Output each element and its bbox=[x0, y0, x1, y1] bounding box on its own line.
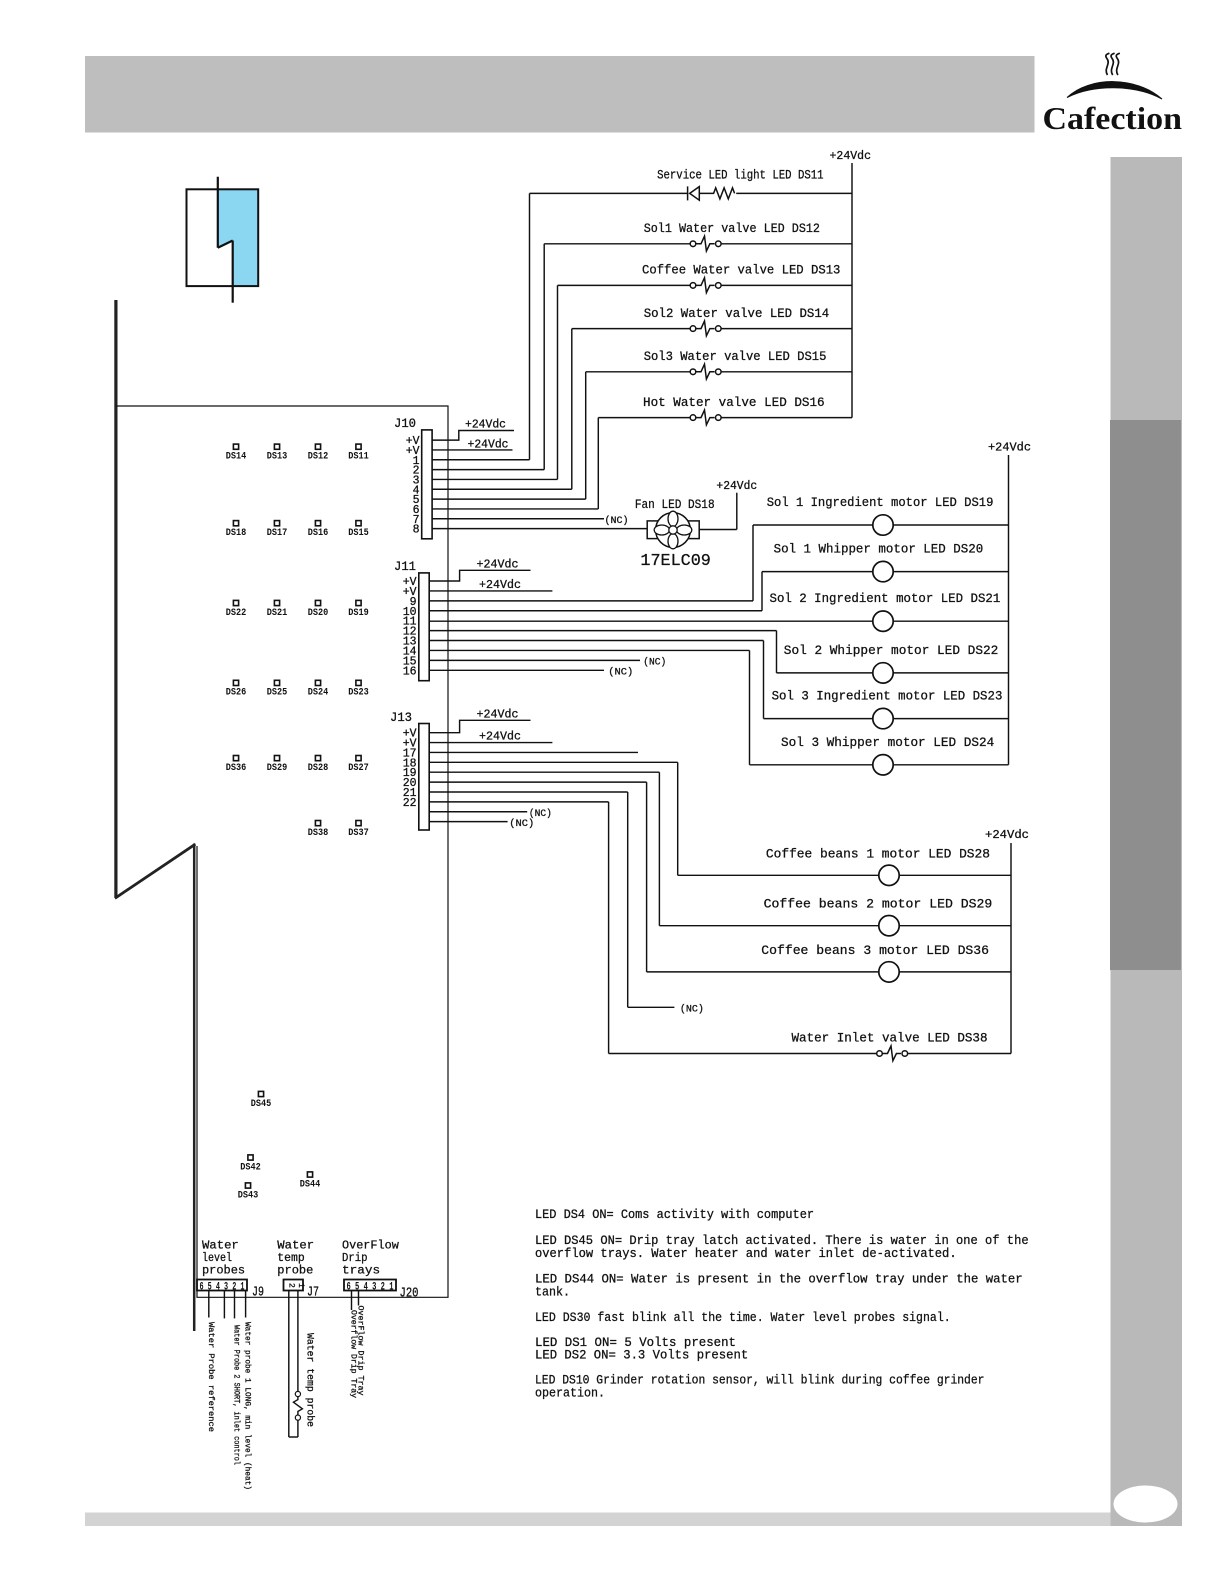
svg-text:DS22: DS22 bbox=[226, 608, 247, 619]
svg-text:operation.: operation. bbox=[535, 1385, 605, 1400]
svg-text:(NC): (NC) bbox=[680, 1003, 704, 1015]
svg-text:DS11: DS11 bbox=[348, 452, 369, 463]
svg-text:tank.: tank. bbox=[535, 1285, 570, 1300]
svg-text:LED DS44 ON= Water is present: LED DS44 ON= Water is present in the ove… bbox=[535, 1272, 1023, 1287]
svg-text:Coffee Water valve LED DS13: Coffee Water valve LED DS13 bbox=[642, 263, 840, 278]
svg-text:(NC): (NC) bbox=[605, 515, 629, 527]
svg-text:Sol 2 Whipper motor LED DS22: Sol 2 Whipper motor LED DS22 bbox=[784, 643, 999, 658]
svg-text:Hot Water valve LED DS16: Hot Water valve LED DS16 bbox=[643, 395, 825, 410]
svg-text:(NC): (NC) bbox=[608, 666, 633, 678]
svg-text:Sol 1 Ingredient motor LED DS1: Sol 1 Ingredient motor LED DS19 bbox=[767, 495, 994, 510]
svg-text:J11: J11 bbox=[394, 560, 416, 574]
svg-text:+24Vdc: +24Vdc bbox=[479, 579, 521, 592]
svg-text:Sol3 Water valve LED DS15: Sol3 Water valve LED DS15 bbox=[644, 349, 827, 364]
svg-text:+24Vdc: +24Vdc bbox=[477, 559, 519, 572]
svg-text:DS37: DS37 bbox=[348, 828, 369, 839]
svg-text:DS23: DS23 bbox=[348, 688, 369, 699]
svg-text:16: 16 bbox=[403, 665, 417, 678]
svg-text:DS25: DS25 bbox=[267, 688, 288, 699]
svg-text:OverFlow Drip Tray: OverFlow Drip Tray bbox=[356, 1306, 366, 1396]
svg-text:Water probe 1 LONG, min level: Water probe 1 LONG, min level (heat) bbox=[243, 1322, 253, 1490]
svg-text:Sol 2 Ingredient motor LED DS2: Sol 2 Ingredient motor LED DS21 bbox=[770, 591, 1001, 606]
svg-text:22: 22 bbox=[403, 797, 417, 810]
svg-text:Service LED light LED DS11: Service LED light LED DS11 bbox=[657, 167, 824, 182]
svg-text:Sol 3 Whipper motor LED DS24: Sol 3 Whipper motor LED DS24 bbox=[781, 735, 994, 750]
svg-text:DS15: DS15 bbox=[348, 528, 369, 539]
svg-text:+24Vdc: +24Vdc bbox=[468, 439, 509, 452]
svg-text:+24Vdc: +24Vdc bbox=[985, 829, 1029, 842]
svg-text:DS27: DS27 bbox=[348, 763, 369, 774]
svg-text:Water Probe 2 SHORT, inlet con: Water Probe 2 SHORT, inlet control bbox=[232, 1325, 242, 1465]
svg-text:Coffee beans 1 motor LED DS28: Coffee beans 1 motor LED DS28 bbox=[766, 846, 990, 861]
svg-text:J13: J13 bbox=[390, 711, 412, 725]
svg-text:LED DS2 ON= 3.3 Volts present: LED DS2 ON= 3.3 Volts present bbox=[535, 1348, 748, 1363]
svg-text:Water Inlet valve LED DS38: Water Inlet valve LED DS38 bbox=[792, 1031, 988, 1046]
svg-text:DS43: DS43 bbox=[238, 1190, 259, 1201]
svg-text:DS12: DS12 bbox=[308, 452, 329, 463]
svg-text:DS29: DS29 bbox=[267, 763, 288, 774]
svg-text:J10: J10 bbox=[394, 417, 416, 431]
svg-text:DS17: DS17 bbox=[267, 528, 288, 539]
svg-text:Water temp probe: Water temp probe bbox=[305, 1333, 316, 1427]
svg-text:Sol 3 Ingredient motor LED DS2: Sol 3 Ingredient motor LED DS23 bbox=[772, 689, 1003, 704]
svg-text:17ELC09: 17ELC09 bbox=[640, 552, 711, 571]
svg-text:+24Vdc: +24Vdc bbox=[988, 442, 1031, 455]
svg-text:trays: trays bbox=[342, 1264, 380, 1278]
svg-text:Sol 1 Whipper motor LED DS20: Sol 1 Whipper motor LED DS20 bbox=[774, 542, 984, 557]
svg-text:DS20: DS20 bbox=[308, 608, 329, 619]
svg-text:J9: J9 bbox=[252, 1286, 264, 1301]
svg-text:2: 2 bbox=[287, 1283, 296, 1288]
svg-text:DS28: DS28 bbox=[308, 763, 329, 774]
svg-text:+24Vdc: +24Vdc bbox=[716, 480, 757, 493]
svg-text:probe: probe bbox=[277, 1264, 313, 1278]
svg-text:(NC): (NC) bbox=[643, 656, 666, 668]
svg-text:8: 8 bbox=[413, 524, 420, 537]
svg-text:DS44: DS44 bbox=[300, 1179, 321, 1190]
svg-text:LED DS30 fast blink all the ti: LED DS30 fast blink all the time. Water … bbox=[535, 1310, 951, 1325]
svg-text:6 5 4 3 2 1: 6 5 4 3 2 1 bbox=[347, 1281, 394, 1293]
svg-text:(NC): (NC) bbox=[509, 818, 534, 830]
svg-text:DS21: DS21 bbox=[267, 608, 288, 619]
svg-text:6 5 4 3 2 1: 6 5 4 3 2 1 bbox=[200, 1281, 245, 1293]
svg-text:+24Vdc: +24Vdc bbox=[479, 731, 521, 744]
svg-text:+24Vdc: +24Vdc bbox=[477, 709, 519, 722]
svg-text:J7: J7 bbox=[307, 1286, 319, 1301]
svg-text:1: 1 bbox=[296, 1283, 305, 1288]
svg-text:LED DS4 ON= Coms activity with: LED DS4 ON= Coms activity with computer bbox=[535, 1207, 814, 1222]
svg-text:DS36: DS36 bbox=[226, 763, 247, 774]
svg-text:DS16: DS16 bbox=[308, 528, 329, 539]
svg-text:DS18: DS18 bbox=[226, 528, 247, 539]
svg-text:Fan LED DS18: Fan LED DS18 bbox=[635, 497, 715, 512]
svg-text:DS13: DS13 bbox=[267, 452, 288, 463]
svg-text:DS42: DS42 bbox=[240, 1162, 261, 1173]
svg-text:Coffee beans 3 motor LED DS36: Coffee beans 3 motor LED DS36 bbox=[761, 943, 989, 958]
svg-text:DS24: DS24 bbox=[308, 688, 329, 699]
svg-text:J20: J20 bbox=[400, 1287, 419, 1302]
svg-text:Sol1 Water valve LED DS12: Sol1 Water valve LED DS12 bbox=[644, 221, 820, 236]
svg-text:DS19: DS19 bbox=[348, 608, 369, 619]
svg-text:+24Vdc: +24Vdc bbox=[830, 150, 872, 163]
svg-text:probes: probes bbox=[202, 1264, 245, 1278]
svg-text:+24Vdc: +24Vdc bbox=[465, 419, 506, 432]
svg-text:DS14: DS14 bbox=[226, 452, 247, 463]
svg-text:Coffee beans 2 motor LED DS29: Coffee beans 2 motor LED DS29 bbox=[764, 897, 993, 912]
svg-text:DS38: DS38 bbox=[308, 828, 329, 839]
svg-text:overflow trays. Water heater: overflow trays. Water heater and water i… bbox=[535, 1246, 957, 1261]
svg-text:Cafection: Cafection bbox=[1043, 100, 1183, 136]
svg-text:DS45: DS45 bbox=[251, 1099, 272, 1110]
svg-text:DS26: DS26 bbox=[226, 688, 247, 699]
svg-text:Sol2 Water valve LED DS14: Sol2 Water valve LED DS14 bbox=[644, 306, 830, 321]
svg-text:Water Probe reference: Water Probe reference bbox=[206, 1322, 216, 1432]
